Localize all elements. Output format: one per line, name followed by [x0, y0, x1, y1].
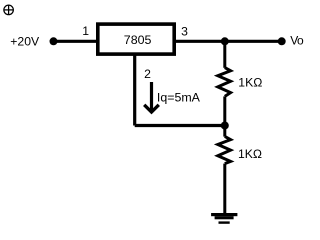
wire: input terminal to pin 1 [54, 40, 98, 43]
svg-text:7805: 7805 [124, 33, 152, 47]
svg-text:3: 3 [181, 24, 188, 38]
svg-text:+20V: +20V [10, 34, 40, 48]
svg-text:1: 1 [82, 24, 89, 38]
circled plus symbol [4, 5, 14, 15]
resistor R2 [218, 126, 231, 214]
svg-text:Vo: Vo [290, 34, 304, 48]
wire: bottom return (pin 2 to node B) [135, 124, 225, 127]
regulator U1 7805 [98, 24, 174, 54]
svg-text:1KΩ: 1KΩ [238, 76, 262, 90]
resistor R1 [218, 41, 231, 125]
current arrow Iq [144, 82, 159, 112]
input terminal dot [50, 37, 58, 45]
ground [211, 213, 237, 224]
wire: pin 2 down from regulator [133, 54, 136, 126]
svg-text:Iq=5mA: Iq=5mA [157, 90, 201, 104]
output terminal dot [278, 37, 286, 45]
junction node B (R1/R2 midpoint) [221, 122, 229, 130]
svg-text:2: 2 [144, 67, 151, 81]
wire: pin 3 to output terminal [174, 40, 282, 43]
svg-text:1KΩ: 1KΩ [238, 147, 262, 161]
junction node A (output / R1 top) [221, 37, 229, 45]
